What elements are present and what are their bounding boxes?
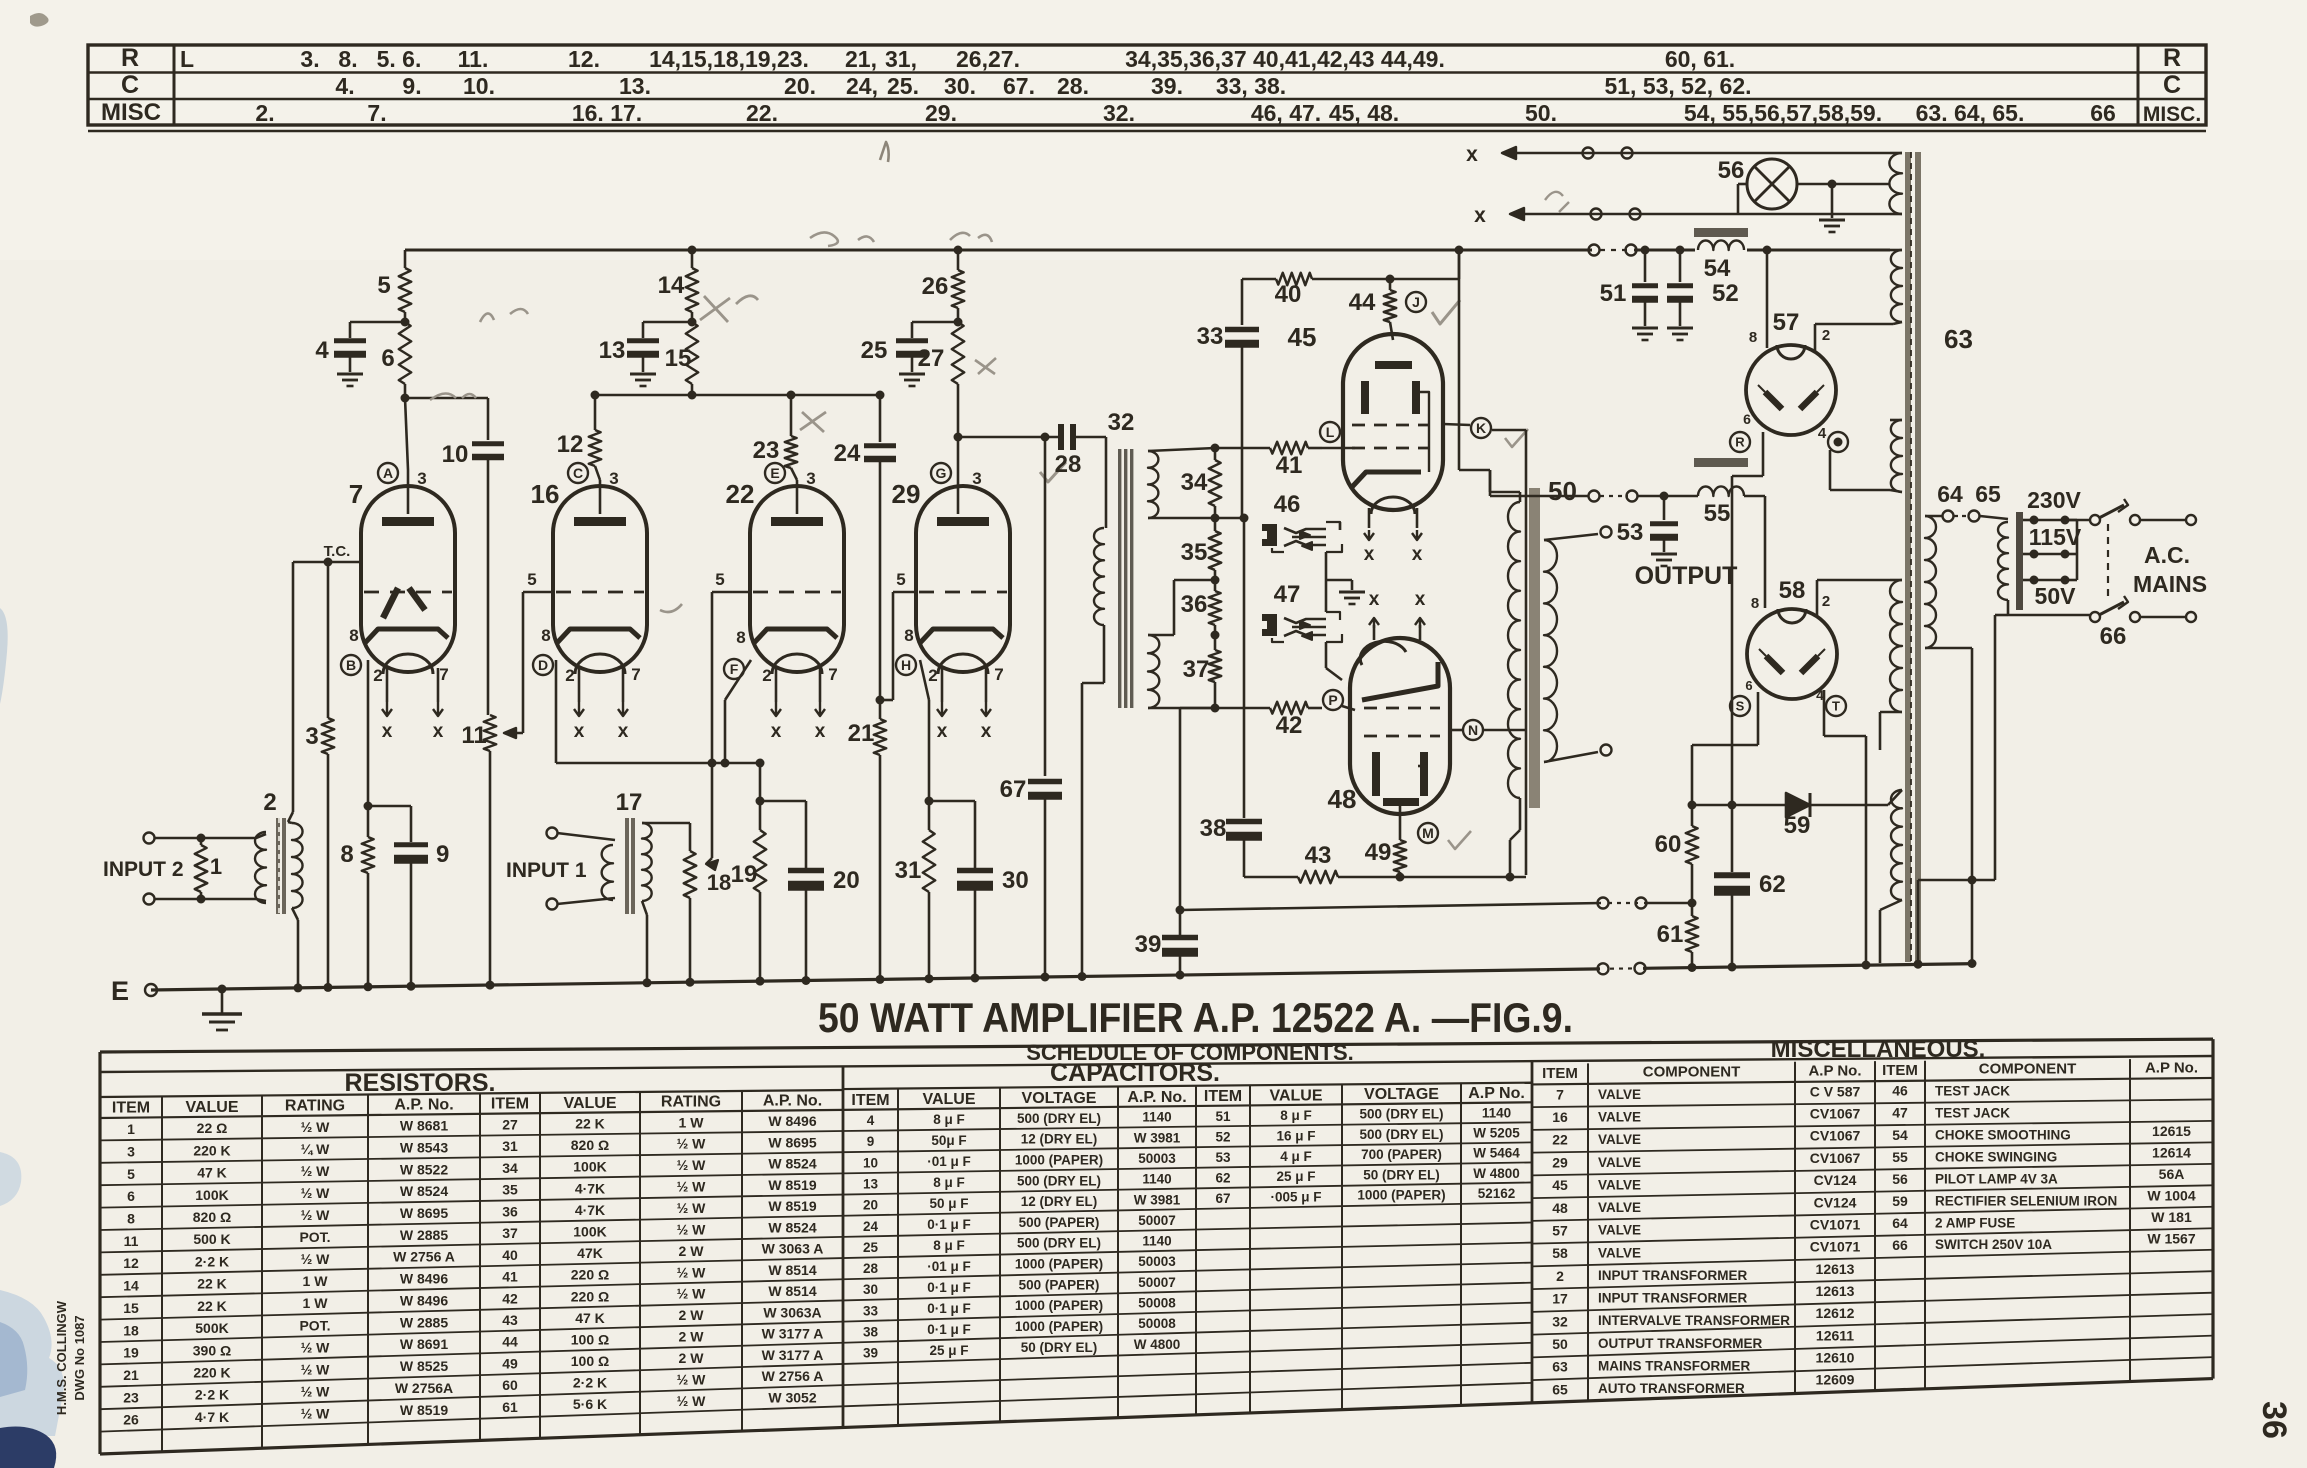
svg-text:20: 20 bbox=[833, 867, 860, 894]
svg-text:½ W: ½ W bbox=[677, 1221, 707, 1237]
svg-text:W 8524: W 8524 bbox=[768, 1156, 816, 1172]
svg-text:14: 14 bbox=[658, 272, 685, 299]
svg-text:28: 28 bbox=[863, 1261, 879, 1276]
svg-text:CV1067: CV1067 bbox=[1810, 1128, 1861, 1144]
svg-text:34: 34 bbox=[502, 1160, 518, 1176]
svg-text:A.P No.: A.P No. bbox=[1468, 1085, 1525, 1102]
valve V7 labels bbox=[378, 463, 398, 483]
svg-text:W 8522: W 8522 bbox=[400, 1161, 448, 1177]
svg-text:N: N bbox=[1468, 722, 1478, 738]
svg-text:½ W: ½ W bbox=[301, 1119, 331, 1135]
svg-text:12: 12 bbox=[123, 1255, 139, 1271]
svg-text:7.: 7. bbox=[367, 100, 386, 126]
svg-text:W 3063A: W 3063A bbox=[763, 1304, 821, 1320]
svg-text:x: x bbox=[981, 721, 992, 742]
svg-text:5: 5 bbox=[527, 570, 536, 589]
svg-text:12613: 12613 bbox=[1816, 1261, 1855, 1277]
svg-text:47K: 47K bbox=[577, 1245, 603, 1261]
wire V57 pin6 down bbox=[1762, 432, 1765, 476]
resistor R37 bbox=[1209, 650, 1221, 682]
svg-text:1 W: 1 W bbox=[679, 1114, 705, 1130]
svg-text:8: 8 bbox=[736, 628, 745, 647]
resistor R42 bbox=[1270, 702, 1308, 714]
svg-text:ITEM: ITEM bbox=[1542, 1065, 1578, 1082]
svg-text:2: 2 bbox=[1556, 1268, 1564, 1284]
capacitor C62 bbox=[1731, 805, 1734, 872]
svg-text:48: 48 bbox=[1328, 784, 1357, 814]
capacitor C33 line bbox=[1241, 279, 1244, 325]
svg-text:0·1 μ F: 0·1 μ F bbox=[927, 1217, 971, 1232]
svg-text:67: 67 bbox=[1000, 776, 1027, 803]
svg-text:CV1071: CV1071 bbox=[1810, 1216, 1861, 1232]
svg-text:22 K: 22 K bbox=[197, 1298, 227, 1314]
svg-text:15: 15 bbox=[123, 1300, 139, 1316]
svg-text:16: 16 bbox=[1552, 1109, 1568, 1125]
svg-text:49: 49 bbox=[1365, 839, 1392, 866]
svg-text:1000 (PAPER): 1000 (PAPER) bbox=[1015, 1319, 1103, 1334]
svg-text:W 1004: W 1004 bbox=[2147, 1188, 2195, 1204]
svg-text:3: 3 bbox=[417, 469, 426, 488]
svg-text:ITEM: ITEM bbox=[112, 1100, 150, 1117]
svg-text:CV124: CV124 bbox=[1814, 1172, 1857, 1188]
svg-text:INPUT 2: INPUT 2 bbox=[103, 858, 184, 881]
svg-text:46: 46 bbox=[1892, 1083, 1908, 1099]
svg-text:1140: 1140 bbox=[1482, 1105, 1511, 1120]
svg-text:56A: 56A bbox=[2159, 1166, 2185, 1182]
valve V29 heater pins bbox=[941, 668, 944, 702]
jack wiring bbox=[1339, 522, 1342, 530]
svg-text:39.: 39. bbox=[1151, 73, 1183, 99]
node N bbox=[1450, 729, 1462, 732]
svg-text:26,27.: 26,27. bbox=[956, 46, 1020, 72]
tap selector link bbox=[2076, 520, 2079, 580]
svg-text:DWG No 1087: DWG No 1087 bbox=[72, 1315, 87, 1400]
svg-text:x: x bbox=[771, 721, 782, 742]
svg-text:CV124: CV124 bbox=[1814, 1194, 1857, 1210]
svg-text:61: 61 bbox=[1657, 921, 1684, 948]
svg-text:D: D bbox=[538, 657, 548, 673]
top index table frame bbox=[88, 45, 2206, 125]
svg-text:57: 57 bbox=[1552, 1222, 1568, 1238]
svg-text:25 μ F: 25 μ F bbox=[1276, 1169, 1315, 1184]
svg-text:T: T bbox=[1832, 699, 1840, 714]
svg-text:TEST JACK: TEST JACK bbox=[1935, 1083, 2010, 1098]
svg-text:W 8524: W 8524 bbox=[400, 1183, 448, 1199]
rectifier valve V58 bbox=[1747, 609, 1837, 699]
svg-text:67: 67 bbox=[1215, 1191, 1230, 1206]
svg-text:W 4800: W 4800 bbox=[1473, 1166, 1520, 1181]
svg-text:12.: 12. bbox=[568, 46, 600, 72]
svg-text:67.: 67. bbox=[1003, 73, 1035, 99]
svg-text:63: 63 bbox=[1944, 324, 1973, 354]
svg-text:11: 11 bbox=[124, 1233, 139, 1249]
svg-text:J: J bbox=[1412, 294, 1420, 310]
T63 winding mid bbox=[1891, 420, 1902, 492]
pilot lamp 56 bbox=[1747, 159, 1797, 209]
svg-text:50007: 50007 bbox=[1138, 1275, 1176, 1290]
svg-text:12 (DRY EL): 12 (DRY EL) bbox=[1021, 1194, 1098, 1209]
svg-text:34: 34 bbox=[1181, 469, 1208, 496]
svg-text:W 8695: W 8695 bbox=[400, 1205, 448, 1221]
pencil tick near R27 bbox=[975, 358, 996, 374]
svg-text:1140: 1140 bbox=[1142, 1110, 1171, 1125]
wire heater rail 1 bbox=[1502, 152, 1890, 154]
svg-text:35: 35 bbox=[502, 1182, 518, 1198]
choke L54 bbox=[1694, 228, 1748, 237]
svg-text:VALVE: VALVE bbox=[1598, 1155, 1641, 1170]
svg-text:CV1067: CV1067 bbox=[1810, 1106, 1861, 1122]
svg-text:W 3177 A: W 3177 A bbox=[762, 1347, 824, 1363]
svg-text:8 μ F: 8 μ F bbox=[933, 1175, 965, 1190]
wire choke55 to V58 bbox=[1744, 495, 1765, 498]
svg-text:500 (DRY EL): 500 (DRY EL) bbox=[1359, 1127, 1443, 1142]
wire bias rail to rectifier bbox=[1180, 903, 1601, 910]
earth bus bbox=[151, 969, 1600, 990]
svg-text:46, 47.: 46, 47. bbox=[1251, 100, 1321, 126]
svg-text:4.: 4. bbox=[335, 73, 354, 99]
svg-text:4: 4 bbox=[315, 337, 329, 364]
svg-text:W 2756 A: W 2756 A bbox=[762, 1368, 824, 1384]
resistor R21 bbox=[874, 719, 886, 755]
svg-text:49: 49 bbox=[502, 1355, 518, 1371]
T63 winding bottom bbox=[1891, 790, 1902, 900]
svg-text:30: 30 bbox=[863, 1282, 878, 1297]
valve V48 heater pins bbox=[1373, 625, 1376, 640]
resistor R36 bbox=[1209, 591, 1221, 625]
node R26/R27 bbox=[954, 318, 963, 327]
svg-text:30: 30 bbox=[1002, 867, 1029, 894]
svg-text:½ W: ½ W bbox=[677, 1264, 707, 1280]
svg-text:37: 37 bbox=[502, 1225, 518, 1241]
svg-text:4: 4 bbox=[1818, 425, 1827, 442]
svg-text:W 8681: W 8681 bbox=[400, 1118, 448, 1134]
wire input1 wires bbox=[557, 833, 615, 840]
svg-text:24,: 24, bbox=[846, 73, 878, 99]
svg-text:W 8525: W 8525 bbox=[400, 1358, 448, 1374]
svg-text:S: S bbox=[1736, 699, 1745, 714]
wire T17 secondary bottom to earth bbox=[642, 901, 647, 915]
node M bbox=[1418, 823, 1438, 843]
svg-text:39: 39 bbox=[863, 1346, 878, 1361]
resistor R12 bbox=[594, 395, 597, 430]
capacitor C30 bbox=[957, 868, 993, 874]
wire T65 bottom return bbox=[2007, 600, 2010, 615]
svg-text:T.C.: T.C. bbox=[324, 543, 351, 560]
capacitor C25 bbox=[896, 338, 928, 343]
svg-text:W 8514: W 8514 bbox=[768, 1283, 816, 1299]
svg-text:MAINS TRANSFORMER: MAINS TRANSFORMER bbox=[1598, 1358, 1750, 1373]
svg-text:W 8691: W 8691 bbox=[400, 1336, 448, 1352]
wire anode V7 bbox=[405, 398, 408, 470]
svg-text:47: 47 bbox=[1892, 1105, 1908, 1121]
svg-text:16. 17.: 16. 17. bbox=[572, 100, 642, 126]
wire R31 to C30 bbox=[929, 800, 975, 803]
valve V48 internals bbox=[1360, 641, 1406, 665]
svg-text:55: 55 bbox=[1704, 500, 1731, 527]
wire V58 pin4 to earth bbox=[1823, 690, 1826, 736]
svg-text:VOLTAGE: VOLTAGE bbox=[1022, 1090, 1097, 1107]
wire R11 to earth bbox=[489, 751, 492, 985]
svg-text:E: E bbox=[111, 976, 129, 1006]
svg-text:45: 45 bbox=[1552, 1177, 1568, 1193]
svg-text:45: 45 bbox=[1288, 322, 1317, 352]
valve V45 internals bbox=[1375, 361, 1412, 369]
svg-text:1: 1 bbox=[210, 854, 222, 879]
resistor R40 bbox=[1276, 273, 1312, 285]
svg-text:6: 6 bbox=[127, 1188, 135, 1204]
svg-text:8: 8 bbox=[1749, 329, 1757, 346]
svg-text:50V: 50V bbox=[2035, 583, 2077, 609]
svg-text:3: 3 bbox=[609, 469, 618, 488]
valve V22 heater pins bbox=[775, 668, 778, 702]
svg-text:500 (PAPER): 500 (PAPER) bbox=[1019, 1215, 1100, 1230]
wire V22 cathode bbox=[725, 660, 751, 700]
svg-text:8 μ F: 8 μ F bbox=[1280, 1108, 1312, 1123]
T.C. top-cap wire V7 bbox=[293, 561, 361, 564]
svg-text:62: 62 bbox=[1759, 871, 1786, 898]
wire V7 cathode pin 8 bbox=[367, 660, 370, 806]
wire anode to C28 bbox=[958, 436, 1058, 439]
svg-text:41: 41 bbox=[1276, 452, 1303, 479]
svg-text:VALVE: VALVE bbox=[1598, 1087, 1641, 1102]
svg-text:W 2885: W 2885 bbox=[400, 1314, 448, 1330]
svg-text:VALUE: VALUE bbox=[185, 1099, 238, 1116]
svg-text:ITEM: ITEM bbox=[851, 1092, 889, 1109]
svg-text:7: 7 bbox=[828, 665, 837, 684]
svg-text:12611: 12611 bbox=[1816, 1327, 1854, 1343]
svg-text:TEST JACK: TEST JACK bbox=[1935, 1105, 2010, 1120]
svg-text:½ W: ½ W bbox=[677, 1157, 707, 1173]
svg-text:2·2 K: 2·2 K bbox=[195, 1387, 229, 1403]
output transformer T50 primary bbox=[1508, 502, 1520, 798]
resistor R31 bbox=[923, 830, 935, 892]
svg-text:A.C.: A.C. bbox=[2144, 542, 2190, 568]
valve V22 envelope bbox=[750, 486, 844, 672]
svg-text:28.: 28. bbox=[1057, 73, 1089, 99]
svg-text:2: 2 bbox=[565, 666, 574, 685]
svg-text:8.: 8. bbox=[338, 46, 357, 72]
svg-text:7: 7 bbox=[994, 665, 1003, 684]
svg-text:A.P No.: A.P No. bbox=[2145, 1059, 2198, 1076]
svg-text:28: 28 bbox=[1055, 451, 1082, 478]
svg-text:47: 47 bbox=[1274, 581, 1301, 608]
svg-text:½ W: ½ W bbox=[301, 1163, 331, 1179]
svg-text:G: G bbox=[936, 465, 947, 481]
svg-text:44: 44 bbox=[502, 1334, 518, 1350]
svg-text:220 Ω: 220 Ω bbox=[571, 1288, 609, 1304]
svg-text:2: 2 bbox=[263, 789, 276, 816]
svg-text:33, 38.: 33, 38. bbox=[1216, 73, 1286, 99]
blue smudge left edge middle bbox=[0, 608, 8, 704]
wire V57 pin2 to winding bbox=[1814, 324, 1817, 352]
svg-text:58: 58 bbox=[1552, 1245, 1568, 1261]
svg-text:13: 13 bbox=[863, 1177, 879, 1192]
svg-text:47 K: 47 K bbox=[197, 1165, 227, 1181]
svg-text:230V: 230V bbox=[2027, 487, 2081, 513]
svg-text:W 5464: W 5464 bbox=[1473, 1146, 1520, 1161]
wire R42 to V48 grid bbox=[1342, 706, 1355, 710]
svg-text:29: 29 bbox=[1552, 1154, 1568, 1170]
svg-text:1000 (PAPER): 1000 (PAPER) bbox=[1015, 1152, 1103, 1167]
svg-text:2: 2 bbox=[762, 666, 771, 685]
svg-text:36: 36 bbox=[502, 1203, 518, 1219]
svg-text:14,15,18,19,23.: 14,15,18,19,23. bbox=[649, 46, 809, 72]
svg-text:12609: 12609 bbox=[1816, 1372, 1855, 1388]
svg-text:MAINS: MAINS bbox=[2133, 571, 2207, 597]
fuse links 64 65 bbox=[1925, 515, 1942, 518]
T63 winding lower bbox=[1890, 580, 1902, 712]
wire V22 grid to R18 bbox=[712, 591, 750, 594]
wire T2 secondary to earth bbox=[292, 908, 298, 920]
switch gang link bbox=[2107, 524, 2109, 600]
node R bbox=[1730, 432, 1750, 452]
svg-text:A.P. No.: A.P. No. bbox=[394, 1097, 453, 1114]
wire V57 pin4 down bbox=[1829, 450, 1832, 490]
wire to C13 bbox=[643, 321, 692, 324]
resistor R49 bbox=[1399, 806, 1402, 840]
svg-text:8 μ F: 8 μ F bbox=[933, 1238, 965, 1253]
svg-text:40: 40 bbox=[502, 1247, 518, 1263]
svg-text:50μ F: 50μ F bbox=[931, 1133, 966, 1148]
wire C10 to potentiometer bbox=[487, 459, 490, 715]
T50 core bbox=[1529, 488, 1540, 808]
svg-text:x: x bbox=[433, 721, 444, 742]
svg-text:R: R bbox=[1735, 435, 1745, 450]
svg-text:500K: 500K bbox=[195, 1320, 228, 1336]
svg-text:33: 33 bbox=[863, 1303, 879, 1318]
svg-text:x: x bbox=[1412, 544, 1423, 565]
svg-text:59: 59 bbox=[1892, 1193, 1908, 1209]
svg-text:63: 63 bbox=[1552, 1359, 1568, 1375]
T32 core bbox=[1118, 449, 1121, 708]
svg-text:B: B bbox=[346, 657, 356, 673]
T63 HT winding upper bbox=[1891, 250, 1902, 322]
svg-text:½ W: ½ W bbox=[301, 1251, 331, 1267]
wire V58 pin6 bbox=[1757, 692, 1760, 745]
svg-text:8: 8 bbox=[349, 626, 358, 645]
capacitor C53 bbox=[1663, 496, 1666, 520]
svg-text:62: 62 bbox=[1215, 1170, 1230, 1185]
svg-text:12: 12 bbox=[557, 431, 584, 458]
svg-text:L: L bbox=[180, 46, 194, 72]
wire R41 to V45 grid bbox=[1322, 447, 1355, 450]
svg-text:C: C bbox=[573, 465, 583, 481]
svg-text:31: 31 bbox=[502, 1138, 518, 1154]
svg-text:L: L bbox=[1326, 424, 1335, 440]
svg-text:VALVE: VALVE bbox=[1598, 1223, 1641, 1238]
T50 secondary bbox=[1544, 540, 1557, 762]
svg-text:INTERVALVE TRANSFORMER: INTERVALVE TRANSFORMER bbox=[1598, 1313, 1790, 1328]
resistor R41 bbox=[1270, 442, 1308, 454]
svg-text:MISC.: MISC. bbox=[2143, 103, 2201, 126]
svg-text:½ W: ½ W bbox=[301, 1383, 331, 1399]
svg-text:RECTIFIER SELENIUM IRON: RECTIFIER SELENIUM IRON bbox=[1935, 1193, 2117, 1208]
svg-text:64: 64 bbox=[1937, 481, 1963, 507]
svg-text:x: x bbox=[1369, 589, 1380, 610]
svg-text:10.: 10. bbox=[463, 73, 495, 99]
svg-text:17: 17 bbox=[616, 789, 643, 816]
AC mains terminals upper bbox=[2130, 515, 2140, 525]
wire bias line to cap39 column bbox=[1180, 707, 1215, 710]
svg-text:W 8695: W 8695 bbox=[768, 1134, 816, 1150]
svg-text:½ W: ½ W bbox=[677, 1286, 707, 1302]
svg-text:W 5205: W 5205 bbox=[1473, 1126, 1520, 1141]
wire T2 primary ends bbox=[256, 834, 266, 838]
svg-text:220 K: 220 K bbox=[193, 1365, 230, 1381]
wire T65 tap 115V bbox=[2023, 553, 2030, 556]
resistor R27 bbox=[952, 322, 964, 384]
wire V58 pin2 bbox=[1816, 580, 1819, 615]
resistor R60 bbox=[1691, 805, 1694, 826]
svg-text:43: 43 bbox=[1305, 842, 1332, 869]
svg-text:60: 60 bbox=[502, 1377, 518, 1393]
svg-text:8: 8 bbox=[541, 626, 550, 645]
svg-text:MISCELLANEOUS.: MISCELLANEOUS. bbox=[1771, 1036, 1986, 1063]
svg-text:53: 53 bbox=[1617, 519, 1644, 546]
svg-text:65: 65 bbox=[1552, 1381, 1568, 1397]
svg-text:A.P. No.: A.P. No. bbox=[1127, 1089, 1186, 1106]
capacitor C9 bbox=[394, 842, 428, 847]
svg-text:CV1067: CV1067 bbox=[1810, 1150, 1861, 1166]
svg-text:20.: 20. bbox=[784, 73, 816, 99]
svg-text:37: 37 bbox=[1183, 656, 1210, 683]
svg-text:1140: 1140 bbox=[1142, 1234, 1171, 1249]
valve V7 envelope bbox=[361, 486, 455, 672]
valve V7 heater pins bbox=[386, 668, 389, 702]
svg-text:220 Ω: 220 Ω bbox=[571, 1267, 609, 1283]
svg-text:100K: 100K bbox=[195, 1187, 228, 1203]
valve V16 labels bbox=[568, 463, 588, 483]
wire HT to T50 primary bbox=[1458, 250, 1461, 470]
pencil check near J bbox=[1432, 300, 1460, 324]
ground near jacks bbox=[1339, 591, 1365, 594]
valve V16 heater pins bbox=[578, 668, 581, 702]
blue smudge left bottom bbox=[0, 1290, 64, 1436]
svg-text:500 (DRY EL): 500 (DRY EL) bbox=[1017, 1111, 1101, 1126]
svg-text:x: x bbox=[1474, 204, 1486, 227]
svg-text:500 (DRY EL): 500 (DRY EL) bbox=[1017, 1236, 1101, 1251]
svg-text:W 3177 A: W 3177 A bbox=[762, 1326, 824, 1342]
svg-text:58: 58 bbox=[1779, 577, 1806, 604]
svg-text:19: 19 bbox=[731, 861, 758, 888]
svg-text:POT.: POT. bbox=[299, 1317, 330, 1333]
svg-text:W 8496: W 8496 bbox=[400, 1271, 448, 1287]
svg-text:23: 23 bbox=[753, 437, 780, 464]
svg-text:OUTPUT: OUTPUT bbox=[1635, 562, 1738, 590]
resistor R34 bbox=[1211, 444, 1220, 453]
svg-text:8 μ F: 8 μ F bbox=[933, 1112, 965, 1127]
svg-text:13: 13 bbox=[599, 337, 626, 364]
svg-text:700 (PAPER): 700 (PAPER) bbox=[1361, 1147, 1442, 1162]
svg-text:½ W: ½ W bbox=[301, 1405, 331, 1421]
svg-text:½ W: ½ W bbox=[677, 1371, 707, 1387]
svg-text:2·2 K: 2·2 K bbox=[195, 1253, 229, 1269]
svg-text:32: 32 bbox=[1552, 1313, 1568, 1329]
svg-text:RATING: RATING bbox=[661, 1094, 721, 1111]
svg-text:W 181: W 181 bbox=[2151, 1209, 2192, 1225]
svg-text:W 2885: W 2885 bbox=[400, 1227, 448, 1243]
svg-text:6: 6 bbox=[381, 345, 394, 372]
capacitor C67 bbox=[1028, 779, 1062, 785]
svg-text:24: 24 bbox=[863, 1219, 879, 1234]
resistor R61 bbox=[1686, 916, 1698, 952]
pencil check near M bbox=[1448, 831, 1471, 849]
svg-text:W 2756 A: W 2756 A bbox=[393, 1249, 455, 1265]
svg-text:4 μ F: 4 μ F bbox=[1280, 1149, 1312, 1164]
svg-text:5. 6.: 5. 6. bbox=[377, 46, 422, 72]
node S bbox=[1730, 696, 1750, 716]
svg-text:61: 61 bbox=[502, 1399, 518, 1415]
